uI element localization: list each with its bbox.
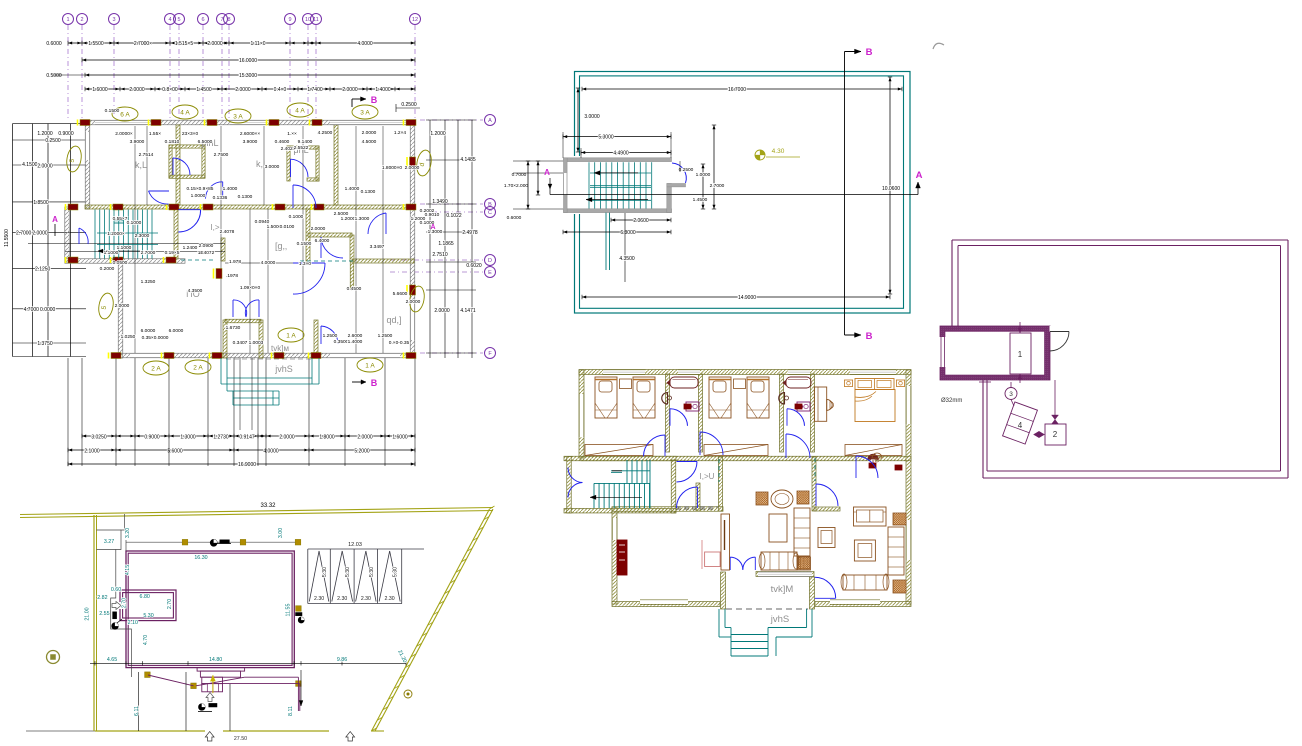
svg-text:0.1810: 0.1810 [165, 139, 180, 145]
svg-text:2.6000××: 2.6000×× [240, 131, 260, 137]
svg-text:5.30: 5.30 [393, 567, 399, 577]
plan3 door living right [816, 484, 838, 506]
plan3 living sofa top [854, 507, 887, 526]
svg-text:1.4000: 1.4000 [348, 339, 363, 345]
plan1 outer right wall [410, 120, 415, 358]
plan1 interior vwall x261 low [225, 319, 261, 323]
svg-text:2.0000: 2.0000 [342, 87, 358, 93]
plan1 dim line 4.0000 row [225, 262, 310, 264]
svg-text:1.3490: 1.3490 [432, 199, 448, 205]
site compass [47, 651, 60, 664]
svg-text:1.0000: 1.0000 [191, 193, 206, 199]
plan1 top dimension row 3 total 15.3 [85, 74, 415, 76]
tank room door opening [1050, 326, 1071, 332]
plan1 door arc qd room [321, 326, 338, 344]
plan1 right dim lines [429, 120, 431, 358]
svg-text:jvhS: jvhS [770, 614, 789, 625]
plan2 dim 4.35 vertical [624, 213, 626, 282]
plan1 bottom dim row 2 [68, 449, 415, 451]
plan3 right wall [906, 370, 911, 604]
svg-text:3: 3 [1009, 391, 1013, 398]
svg-text:6 A: 6 A [120, 111, 130, 118]
tank circle 3 [1005, 388, 1017, 400]
site car glyph top [210, 539, 217, 546]
svg-text:12: 12 [412, 17, 418, 23]
svg-text:1.11×0: 1.11×0 [250, 41, 265, 47]
plan3 sitting side tables [756, 492, 768, 505]
svg-text:5.6000: 5.6000 [167, 449, 183, 455]
svg-text:11: 11 [313, 17, 319, 23]
plan3 threshold dashed [726, 608, 808, 610]
site north arrows [205, 732, 214, 742]
svg-text:6.0000: 6.0000 [141, 328, 156, 334]
plan3 kitchen top wall [612, 507, 723, 512]
svg-text:0.8×00: 0.8×00 [162, 87, 178, 93]
plan3 stair enclosure [564, 456, 676, 461]
plan1 bottom dim row 3 total [68, 463, 415, 465]
svg-text:1.6000: 1.6000 [392, 435, 408, 441]
plan1 interior vwall x178 [176, 125, 180, 205]
plan3 entrance double door [730, 557, 743, 570]
plan1 outer left wall upper [85, 120, 90, 209]
plan1 closet2 walls [287, 146, 290, 181]
svg-text:2.7510: 2.7510 [432, 252, 448, 258]
tank box 2 [1045, 424, 1066, 445]
svg-text:tvk]M: tvk]M [771, 584, 794, 595]
plan1 door arc kL1 at wall [149, 191, 169, 204]
svg-text:1.4000: 1.4000 [223, 186, 238, 192]
svg-text:I,>: I,> [210, 223, 219, 232]
svg-text:2.0000: 2.0000 [434, 308, 450, 314]
svg-text:8: 8 [227, 17, 230, 23]
svg-text:1: 1 [1018, 350, 1023, 359]
svg-text:2.0000: 2.0000 [279, 435, 295, 441]
tank valve above box2 [1052, 415, 1059, 424]
site survey polyline left [111, 514, 132, 677]
svg-text:14.9000: 14.9000 [738, 295, 756, 301]
site olive squares [182, 539, 188, 545]
svg-text:D: D [488, 258, 492, 264]
plan3 pink square [705, 552, 721, 567]
svg-text:1 A: 1 A [286, 332, 296, 339]
svg-text:1.1000: 1.1000 [117, 245, 132, 251]
plan1 olive ellipse labels bottom [143, 361, 169, 375]
plan3 sideboard [721, 514, 730, 570]
plan2 B section line [844, 52, 846, 336]
tank room window left wall [940, 337, 946, 367]
svg-text:B: B [488, 202, 492, 208]
site top dim line [126, 541, 301, 543]
site annex purple walls [120, 590, 176, 621]
svg-text:5.3000: 5.3000 [598, 134, 614, 140]
plan3 sink right room [872, 453, 882, 458]
plan2 stair enclosure walls [564, 158, 672, 162]
svg-text:1: 1 [66, 17, 69, 23]
plan3 washer bath1 [686, 402, 699, 411]
plan3 bath1 fixtures [670, 377, 698, 388]
svg-text:2.0000: 2.0000 [357, 435, 373, 441]
svg-text:4.0000: 4.0000 [357, 41, 373, 47]
plan3 windows left right walls [579, 394, 584, 437]
plan1 columns B/C wall [68, 204, 78, 210]
svg-text:0.4600: 0.4600 [275, 139, 290, 145]
svg-text:1.4000: 1.4000 [375, 87, 391, 93]
plan2 outer teal rect [575, 72, 911, 314]
svg-text:6.5000: 6.5000 [198, 139, 213, 145]
site boundary left [93, 515, 95, 731]
plan3 hall wall [719, 457, 723, 511]
svg-text:0.1000: 0.1000 [289, 214, 304, 220]
plan3 vestibule walls [721, 572, 726, 609]
plan1 entrance vestibule walls [223, 320, 227, 358]
tank door arc [1050, 331, 1069, 333]
svg-text:2.30: 2.30 [337, 596, 347, 602]
svg-text:4.15: 4.15 [125, 565, 131, 575]
plan1 window gaps top wall [95, 120, 150, 124]
plan2 stair treads [588, 162, 590, 208]
svg-text:1.4500: 1.4500 [693, 197, 708, 203]
plan3 vestibule door to living [815, 577, 836, 598]
plan2 dim 3.0 vertical [577, 88, 579, 152]
plan1 stair dim lines long [28, 243, 225, 245]
svg-text:16.9000: 16.9000 [238, 462, 256, 468]
svg-text:2.0000: 2.0000 [32, 230, 48, 236]
plan1 outer top wall [85, 120, 414, 125]
site olive small circle [404, 690, 412, 698]
svg-text:6.3000: 6.3000 [620, 230, 636, 236]
svg-text:1.1000: 1.1000 [104, 250, 119, 256]
svg-text:4.0000: 4.0000 [263, 449, 279, 455]
svg-text:1.09×0×0: 1.09×0×0 [240, 285, 261, 291]
svg-text:2.0900: 2.0900 [199, 243, 214, 249]
plan3 left wall lower [612, 507, 617, 604]
site white arrow glyph below steps [206, 693, 214, 702]
svg-text:2.0000: 2.0000 [129, 87, 145, 93]
svg-text:2.0000: 2.0000 [405, 165, 420, 171]
plan3 door kitchen [677, 487, 698, 508]
plan3 stair treads [626, 460, 628, 483]
plan1 door arc mid top [293, 185, 316, 208]
plan1 window gaps left wall [85, 132, 89, 160]
plan3 bottom wall [612, 602, 720, 607]
plan2 A section line [550, 194, 918, 196]
plan3 sitting hatched square bottom [798, 557, 811, 570]
tank outer boundary lines [952, 239, 1288, 241]
svg-text:9: 9 [288, 17, 291, 23]
svg-text:2.4978: 2.4978 [462, 230, 478, 236]
site black circle glyph bottom [199, 704, 206, 711]
svg-text:5.30: 5.30 [322, 567, 328, 577]
plan3 door stairbox [677, 462, 698, 483]
svg-text:23×3×0: 23×3×0 [182, 131, 199, 137]
svg-text:B: B [866, 47, 873, 58]
plan3 dresser bed3 [814, 387, 826, 421]
plan3 door bath1 [670, 409, 688, 426]
svg-text:5.2000: 5.2000 [354, 449, 370, 455]
svg-text:4: 4 [1018, 421, 1023, 430]
plan1 door arc living big [293, 263, 325, 294]
plan3 living sofa right [888, 527, 904, 575]
plan1 closet1 door arc [173, 158, 190, 175]
svg-text:3 A: 3 A [360, 109, 370, 116]
svg-text:2.0000: 2.0000 [406, 299, 421, 305]
plan1 wall x223 mid [221, 238, 225, 261]
svg-text:2.30: 2.30 [385, 596, 395, 602]
site annex door arrow glyph [112, 602, 121, 610]
svg-text:5.30: 5.30 [369, 567, 375, 577]
svg-text:2.7000: 2.7000 [141, 250, 156, 256]
plan3 bed1 nightstand [620, 379, 632, 389]
svg-text:0.9147: 0.9147 [239, 435, 255, 441]
plan3 bed 3 body [855, 390, 895, 422]
tank pipe top [1019, 322, 1021, 333]
plan1 B section marker bottom [352, 381, 366, 383]
site parking stalls [308, 548, 424, 550]
svg-text:6.80: 6.80 [140, 594, 150, 600]
tank valve left of box2 [1034, 431, 1045, 437]
svg-text:2.3000: 2.3000 [135, 233, 150, 239]
plan2 dim 5.3 [563, 136, 671, 138]
svg-text:3.0250: 3.0250 [91, 435, 107, 441]
svg-text:0.55×7: 0.55×7 [113, 216, 128, 222]
svg-text:1.6000: 1.6000 [92, 87, 108, 93]
svg-text:2.70: 2.70 [121, 598, 127, 608]
svg-text:8.11: 8.11 [288, 706, 294, 716]
svg-text:2.82: 2.82 [97, 595, 107, 601]
tank box 4 rotated [1003, 402, 1038, 444]
plan1 top dimension row 2 total 16.0 [82, 59, 415, 61]
plan3 bath2 fixtures [786, 377, 811, 388]
svg-text:1.55×: 1.55× [149, 131, 161, 137]
svg-text:16.30: 16.30 [194, 555, 207, 561]
svg-text:1.3000: 1.3000 [180, 435, 196, 441]
svg-text:2.7000×: 2.7000× [134, 41, 152, 47]
svg-text:C: C [488, 210, 492, 216]
plan3 sitting sofa right [794, 508, 810, 556]
svg-text:12.03: 12.03 [348, 542, 362, 548]
plan1 row letter bubbles right [485, 115, 496, 126]
svg-text:9.86: 9.86 [337, 657, 347, 663]
site dim lines black [90, 662, 406, 664]
svg-text:0.60: 0.60 [111, 587, 121, 593]
svg-text:3.0000: 3.0000 [584, 114, 600, 120]
svg-text:1.4000: 1.4000 [345, 186, 360, 192]
plan3 bed1 twin beds [595, 377, 617, 418]
svg-text:4 A: 4 A [295, 107, 305, 114]
svg-text:14.80: 14.80 [209, 657, 222, 663]
svg-text:2.10: 2.10 [128, 620, 138, 626]
plan1 dashed line below entrance [226, 358, 311, 360]
svg-text:2 A: 2 A [151, 365, 161, 372]
svg-text:1.3250: 1.3250 [141, 279, 156, 285]
plan2 dim 4.49 [581, 152, 671, 154]
svg-text:3.20: 3.20 [125, 528, 131, 538]
svg-text:1.1865: 1.1865 [438, 241, 454, 247]
plan3 sitting coffee table [769, 514, 787, 542]
plan1 door arc kL2 at wall [206, 182, 223, 199]
svg-text:1.2500: 1.2500 [323, 333, 338, 339]
plan3 sitting sofa bottom [761, 552, 797, 570]
plan1 top dimension row 1 [68, 42, 415, 44]
svg-text:jvhS: jvhS [274, 364, 293, 374]
tank inner boundary lines [958, 245, 1281, 247]
tank pipe room to box2 [1054, 380, 1056, 424]
svg-text:1.2730: 1.2730 [213, 435, 229, 441]
plan1 outer left wall lower [118, 261, 123, 358]
plan2 small gray arc top right [933, 43, 944, 49]
svg-text:2.0000: 2.0000 [311, 226, 326, 232]
svg-text:4.30: 4.30 [772, 148, 785, 155]
plan1 B section marker top [352, 98, 366, 100]
svg-text:2.7000: 2.7000 [16, 230, 32, 236]
plan1 interior hwall right mid [308, 233, 352, 237]
plan3 porch steps [718, 609, 720, 637]
svg-text:4.5000: 4.5000 [362, 139, 377, 145]
svg-text:0.3500: 0.3500 [334, 339, 349, 345]
svg-text:1.3×0: 1.3×0 [299, 261, 311, 267]
svg-text:2.0000: 2.0000 [207, 41, 223, 47]
svg-text:2.70: 2.70 [167, 599, 173, 609]
plan1 closet2 door arc [291, 159, 309, 177]
svg-text:0.1500: 0.1500 [105, 108, 120, 114]
svg-text:1.4500: 1.4500 [196, 87, 212, 93]
svg-text:0.×0-0.35: 0.×0-0.35 [389, 340, 410, 346]
svg-text:2.0000: 2.0000 [362, 130, 377, 136]
plan2 stair enclosure interior white [561, 156, 687, 214]
site black glyph left annex [113, 612, 117, 619]
svg-text:4.3500: 4.3500 [619, 256, 635, 262]
plan3 door bath2 [787, 409, 805, 426]
svg-text:4.2500: 4.2500 [318, 130, 333, 136]
plan3 wardrobes [585, 445, 653, 456]
svg-text:0.0000: 0.0000 [40, 307, 56, 313]
site annex door gap [119, 602, 124, 609]
svg-text:3.00: 3.00 [278, 528, 284, 538]
plan3 bed3 nightstands [844, 380, 852, 387]
plan3 windows bottom and lower-left walls [640, 600, 688, 605]
svg-text:2 A: 2 A [193, 364, 203, 371]
plan3 door bed2 arc2 [786, 434, 810, 458]
svg-text:1.8000: 1.8000 [319, 435, 335, 441]
plan1 interior extension verticals [134, 126, 136, 353]
site boundary bottom [26, 730, 95, 732]
svg-text:3.3497: 3.3497 [370, 244, 385, 250]
plan1 interior vwall x308 mid [306, 209, 310, 261]
plan1 columns top wall [80, 120, 90, 126]
svg-text:4.0000: 4.0000 [261, 260, 276, 266]
svg-text:Ø32mm: Ø32mm [941, 398, 962, 404]
tank room walls purple [940, 326, 1050, 380]
plan2 dim 10.06 vertical [889, 77, 891, 294]
svg-text:0.1022: 0.1022 [446, 213, 462, 219]
plan1 entrance extension lines [239, 358, 241, 430]
plan3 living corner table [893, 513, 906, 525]
site building rect purple outer [126, 551, 294, 668]
site boundary slant hatch [490, 506, 495, 509]
plan3 interior hwall below bedrooms [581, 456, 911, 461]
plan2 dim 14.9 [582, 296, 890, 298]
plan1 olive ellipse rotated right [415, 149, 433, 177]
svg-text:2.6000: 2.6000 [348, 333, 363, 339]
svg-text:0.1336: 0.1336 [213, 195, 228, 201]
svg-text:1 A: 1 A [365, 362, 375, 369]
svg-text:1.70×2.000: 1.70×2.000 [504, 183, 528, 189]
plan3 sitting round table [771, 490, 793, 508]
svg-text:1.515×5: 1.515×5 [175, 41, 193, 47]
svg-text:6: 6 [201, 17, 204, 23]
svg-text:1E4072: 1E4072 [198, 250, 215, 256]
plan3 toilet marks maroon [684, 404, 691, 409]
svg-text:3 A: 3 A [233, 113, 243, 120]
svg-text:0.6000: 0.6000 [507, 215, 522, 221]
site purple connector lines [148, 675, 194, 686]
svg-text:1.2000: 1.2000 [341, 216, 356, 222]
svg-text:2.0600: 2.0600 [633, 218, 649, 224]
svg-text:2: 2 [80, 17, 83, 23]
svg-text:33.32: 33.32 [260, 503, 276, 509]
svg-text:0.3407 1.0003: 0.3407 1.0003 [233, 340, 264, 346]
plan3 stair double door [568, 468, 583, 483]
svg-text:4.4900: 4.4900 [613, 150, 629, 156]
svg-text:2.55: 2.55 [99, 611, 109, 617]
svg-text:4 A: 4 A [180, 109, 190, 116]
svg-text:B: B [371, 95, 378, 105]
plan2 stair dims right [702, 164, 704, 209]
svg-text:0.15×0.9×85: 0.15×0.9×85 [187, 186, 214, 192]
plan1 columns annex bottom [68, 257, 78, 263]
plan3 door bed3 [856, 456, 878, 478]
svg-text:5: 5 [177, 17, 180, 23]
svg-text:0.0100: 0.0100 [280, 224, 295, 230]
plan1 grid bubbles top [63, 14, 74, 25]
svg-text:1.0250: 1.0250 [121, 334, 136, 340]
svg-text:I,>U: I,>U [700, 472, 715, 481]
svg-text:15.3000: 15.3000 [239, 73, 257, 79]
plan1 interior wall B/C [85, 205, 414, 209]
svg-text:qd,]: qd,] [386, 315, 401, 325]
svg-text:4.1485: 4.1485 [460, 157, 476, 163]
site yellow arrow at steps [212, 675, 214, 693]
svg-text:3.9000: 3.9000 [243, 139, 258, 145]
svg-text:0.9000: 0.9000 [58, 131, 74, 137]
svg-text:0.9000: 0.9000 [144, 435, 160, 441]
svg-text:0.1000: 0.1000 [127, 220, 142, 226]
site black circle glyph right [298, 617, 304, 623]
plan1 stair treads [94, 210, 96, 259]
plan2 level symbol 4.30 [755, 150, 765, 160]
svg-text:0.1300: 0.1300 [361, 189, 376, 195]
site boundary top [20, 511, 493, 518]
tank pipe bottom [1019, 374, 1021, 383]
plan1 qd room wall stub [350, 261, 354, 290]
plan1 grid dashed lines [67, 25, 69, 118]
plan3 bed3 door fan maroon [868, 454, 879, 460]
plan2 dim 16.7 [582, 88, 902, 90]
plan1 stair dashed teal [181, 259, 215, 261]
svg-text:27.50: 27.50 [234, 736, 247, 742]
plan3 sitting room south wall with window [756, 572, 814, 577]
svg-text:1.7400: 1.7400 [307, 87, 323, 93]
plan1 window gaps bottom wall [130, 353, 163, 357]
svg-text:1.3000: 1.3000 [355, 216, 370, 222]
plan1 top dimension row 4 [85, 88, 415, 90]
plan2 door arc [672, 163, 686, 183]
svg-text:0.9010: 0.9010 [425, 212, 440, 218]
svg-text:4.65: 4.65 [107, 657, 117, 663]
svg-text:0.2500: 0.2500 [45, 138, 61, 144]
svg-text:2.0000: 2.0000 [235, 87, 251, 93]
svg-text:4: 4 [168, 17, 171, 23]
